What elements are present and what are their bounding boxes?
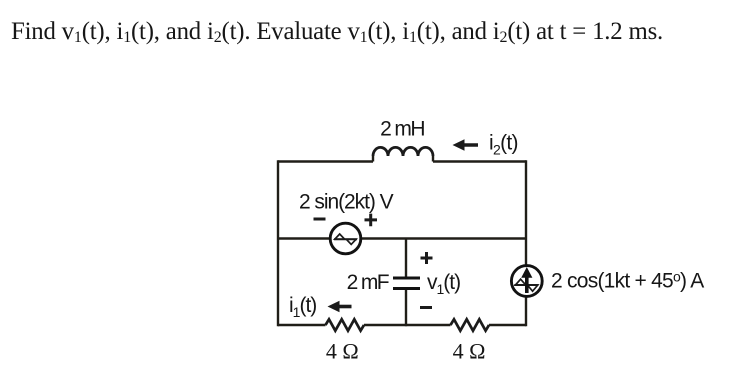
svg-text:i1(t): i1(t) xyxy=(289,294,316,320)
wire: bottom left segment xyxy=(278,324,326,326)
wire: capacitor branch vertical top xyxy=(405,239,407,278)
resistor R2 4ohm right xyxy=(451,319,490,330)
svg-text:2 sin(2kt) V: 2 sin(2kt) V xyxy=(299,191,394,214)
svg-text:i2(t): i2(t) xyxy=(489,132,518,158)
wire: left vertical xyxy=(277,160,279,326)
wire: right vertical xyxy=(525,160,527,326)
plus sign of v1 xyxy=(421,252,433,264)
svg-text:2 mH: 2 mH xyxy=(380,118,424,141)
voltage source VS1 xyxy=(330,223,361,254)
plus sign of V source xyxy=(365,214,378,227)
wire: bottom middle segment xyxy=(364,324,451,326)
current source IS1 xyxy=(511,266,542,297)
minus sign of V source xyxy=(314,218,326,221)
svg-text:2 mF: 2 mF xyxy=(347,271,389,294)
resistor R1 4ohm left xyxy=(326,319,365,330)
svg-text:4 Ω: 4 Ω xyxy=(326,339,359,364)
arrow for i2(t) xyxy=(460,143,478,147)
wire: top-left segment of top wire xyxy=(278,160,373,162)
svg-text:v1(t): v1(t) xyxy=(427,271,460,297)
minus sign of v1 xyxy=(420,306,432,309)
capacitor C1 2 mF plates xyxy=(393,278,420,289)
inductor L1 2 mH xyxy=(373,156,433,162)
wire: middle horizontal xyxy=(278,237,526,239)
wire: bottom right segment xyxy=(489,324,526,326)
arrow for i1(t) xyxy=(338,305,352,309)
svg-text:Find v1(t), i1(t), and i2(t).: Find v1(t), i1(t), and i2(t). Evaluate v… xyxy=(11,18,663,46)
wire: top-right segment of top wire xyxy=(433,160,526,162)
svg-text:2 cos(1kt + 45o) A: 2 cos(1kt + 45o) A xyxy=(551,269,704,293)
svg-text:4 Ω: 4 Ω xyxy=(453,339,486,364)
wire: capacitor branch vertical bottom xyxy=(405,290,407,326)
